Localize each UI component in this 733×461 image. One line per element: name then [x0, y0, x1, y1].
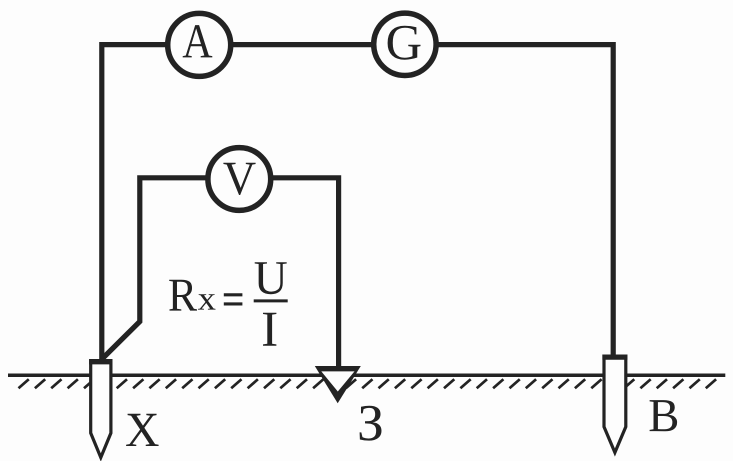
electrode B (auxiliary current electrode rod): [602, 356, 627, 452]
wire: electrode X up, across top, down to electrode B (current loop): [102, 45, 613, 361]
label B: [650, 400, 678, 431]
ground hatching: [19, 379, 717, 388]
generator G: [374, 13, 436, 75]
ground surface line: [8, 373, 725, 377]
ammeter A: [168, 13, 231, 76]
wire: voltmeter loop (diagonal from X, up, across, down to probe): [102, 178, 339, 369]
formula: subscript x: [198, 294, 216, 309]
formula: equals sign: [224, 295, 243, 304]
formula: fraction bar: [254, 299, 288, 302]
formula: R: [169, 280, 197, 311]
label З (probe): [360, 406, 382, 441]
formula: I (denominator): [263, 313, 276, 346]
electrode X (earth rod under test): [89, 361, 112, 458]
voltmeter V: [208, 148, 271, 211]
formula: U (numerator): [255, 262, 287, 294]
label X: [126, 414, 158, 446]
probe electrode З (potential probe triangle): [315, 366, 361, 403]
